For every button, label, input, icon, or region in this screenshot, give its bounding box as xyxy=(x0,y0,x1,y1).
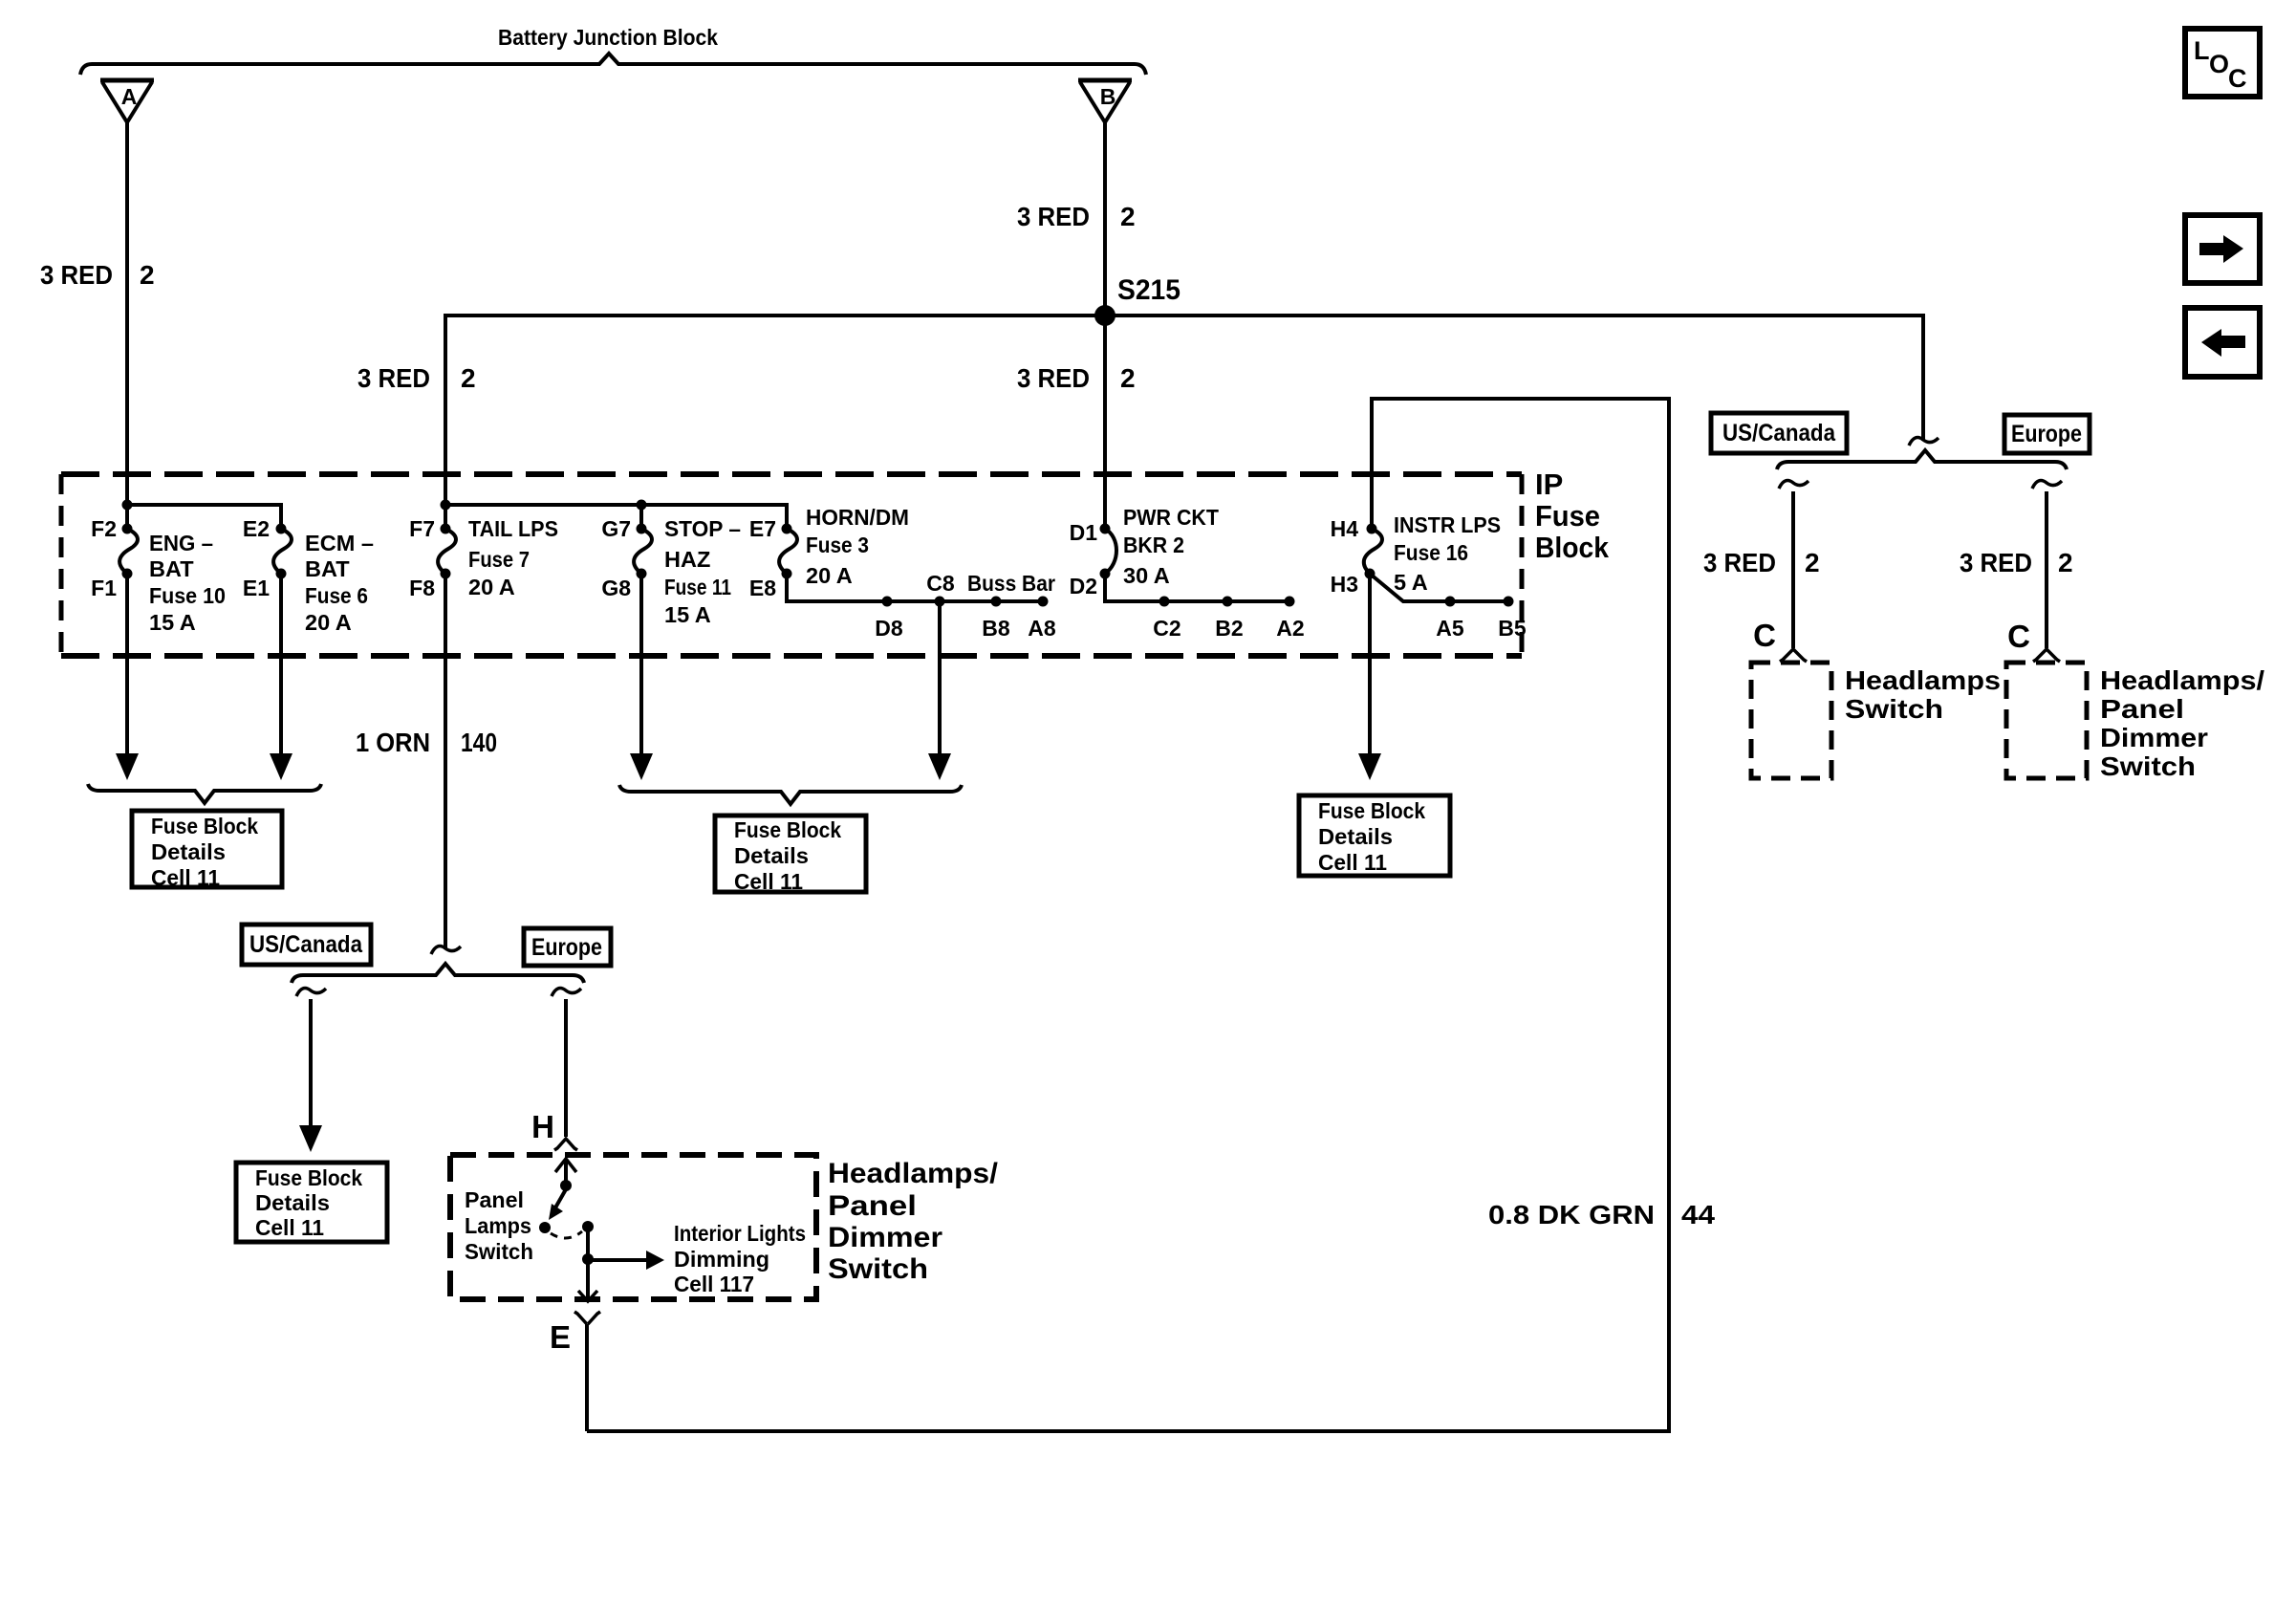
connector B (triangle) xyxy=(1078,80,1132,122)
svg-text:Cell 11: Cell 11 xyxy=(1318,850,1387,875)
svg-text:2: 2 xyxy=(461,363,476,393)
box Europe (upper) xyxy=(2004,415,2090,453)
connector break US/Canada headlamp branch xyxy=(1779,481,1809,489)
fuse ENG-BAT Fuse 10 (pins F2/F1) xyxy=(91,516,226,635)
svg-text:15 A: 15 A xyxy=(149,610,196,635)
circuit breaker PWR CKT BKR 2 (pins D1/D2) xyxy=(1070,505,1220,598)
connector break Europe headlamp branch xyxy=(2032,481,2062,489)
label Panel Lamps Switch xyxy=(465,1187,533,1264)
svg-text:3 RED: 3 RED xyxy=(1017,202,1090,231)
svg-text:Details: Details xyxy=(734,843,809,868)
fuse STOP-HAZ Fuse 11 (pins G7/G8) xyxy=(601,516,741,627)
box Fuse Block Details Cell 11 (left) xyxy=(132,811,282,890)
wire: S215 bus right to headlamp switches xyxy=(1105,315,1923,441)
brace US/Canada-Europe split (upper right) xyxy=(1777,450,2067,469)
svg-text:Dimming: Dimming xyxy=(674,1247,769,1272)
svg-text:Switch: Switch xyxy=(2100,751,2196,781)
page arrow left box xyxy=(2185,308,2260,377)
label Interior Lights Dimming Cell 117 xyxy=(674,1221,806,1296)
label Headlamps/Panel Dimmer Switch (inner) xyxy=(828,1158,999,1285)
svg-text:STOP –: STOP – xyxy=(664,516,741,541)
box US/Canada (lower) xyxy=(242,925,371,965)
svg-text:HORN/DM: HORN/DM xyxy=(806,505,909,530)
svg-text:140: 140 xyxy=(461,728,497,757)
switch up-arrow to H xyxy=(555,1159,576,1185)
wire right contact down to junction xyxy=(582,1227,594,1265)
svg-text:C: C xyxy=(2228,64,2247,93)
svg-text:5 A: 5 A xyxy=(1394,570,1428,595)
label IP Fuse Block xyxy=(1535,468,1610,564)
svg-text:C8: C8 xyxy=(926,571,955,596)
label 3 RED 2 on TAIL LPS feed xyxy=(357,363,476,393)
svg-text:3 RED: 3 RED xyxy=(1703,548,1776,577)
wire C8 output with arrow xyxy=(928,601,951,780)
wire US/Canada branch with arrow xyxy=(299,999,322,1152)
svg-text:HAZ: HAZ xyxy=(664,547,710,572)
svg-text:Block: Block xyxy=(1535,531,1610,564)
connector pin H xyxy=(531,1109,577,1150)
svg-text:D2: D2 xyxy=(1070,574,1097,598)
svg-text:F8: F8 xyxy=(409,576,435,600)
svg-text:Dimmer: Dimmer xyxy=(828,1222,942,1253)
svg-text:Fuse Block: Fuse Block xyxy=(1318,798,1426,823)
svg-text:3 RED: 3 RED xyxy=(1017,363,1090,393)
svg-text:F7: F7 xyxy=(409,516,435,541)
label 0.8 DK GRN 44 xyxy=(1488,1200,1715,1229)
wire: fuse-row bus from wire A to ECM fuse xyxy=(122,500,282,530)
wire E8 output to buss bar xyxy=(787,571,1056,641)
dashed box Headlamps Switch xyxy=(1751,663,1831,778)
node S215 xyxy=(1094,274,1180,326)
fuse INSTR LPS Fuse 16 (pins H4/H3) xyxy=(1331,512,1501,597)
svg-text:F2: F2 xyxy=(91,516,117,541)
svg-text:Cell 117: Cell 117 xyxy=(674,1272,754,1296)
wire to Headlamps Switch xyxy=(1791,491,1795,648)
svg-text:E8: E8 xyxy=(749,576,776,600)
svg-text:Cell 11: Cell 11 xyxy=(734,869,803,894)
svg-text:C: C xyxy=(2007,619,2030,654)
svg-text:44: 44 xyxy=(1681,1200,1715,1229)
wire INSTR LPS feed from top loop xyxy=(587,399,1669,1431)
svg-text:2: 2 xyxy=(1805,548,1820,577)
svg-text:Buss Bar: Buss Bar xyxy=(967,571,1055,596)
svg-text:H3: H3 xyxy=(1331,572,1358,597)
svg-text:Fuse: Fuse xyxy=(1535,499,1600,533)
svg-text:D8: D8 xyxy=(875,616,903,641)
svg-text:A8: A8 xyxy=(1028,616,1056,641)
svg-text:Cell 11: Cell 11 xyxy=(151,865,220,890)
svg-text:H: H xyxy=(531,1109,554,1144)
switch contact right dot xyxy=(582,1221,594,1232)
box Fuse Block Details Cell 11 (bottom-left) xyxy=(236,1163,387,1242)
svg-text:Fuse 16: Fuse 16 xyxy=(1394,540,1468,565)
svg-text:Switch: Switch xyxy=(1845,694,1943,724)
brace under F1/E1 arrows xyxy=(88,784,321,803)
svg-text:US/Canada: US/Canada xyxy=(249,931,363,958)
wire B: battery feed to S215 and D1 xyxy=(1103,122,1107,529)
svg-text:Cell 11: Cell 11 xyxy=(255,1215,324,1240)
svg-text:B8: B8 xyxy=(982,616,1010,641)
splice break on S215 right branch xyxy=(1909,438,1939,446)
page arrow right box xyxy=(2185,215,2260,283)
page locator LOC box xyxy=(2185,29,2260,97)
svg-text:3 RED: 3 RED xyxy=(357,363,430,393)
svg-text:Interior Lights: Interior Lights xyxy=(674,1221,806,1246)
svg-text:Fuse 7: Fuse 7 xyxy=(468,547,530,572)
wire E1 output with arrow xyxy=(270,574,292,780)
svg-text:Details: Details xyxy=(1318,824,1393,849)
wire D2 output bus xyxy=(1105,574,1305,641)
svg-text:Fuse 6: Fuse 6 xyxy=(305,583,368,608)
svg-text:3 RED: 3 RED xyxy=(40,260,113,290)
wire F8 output (1 ORN 140) xyxy=(444,574,447,949)
svg-text:20 A: 20 A xyxy=(468,575,515,599)
svg-text:2: 2 xyxy=(140,260,155,290)
svg-text:Lamps: Lamps xyxy=(465,1213,531,1238)
fuse TAIL LPS Fuse 7 (pins F7/F8) xyxy=(409,516,558,600)
svg-text:C2: C2 xyxy=(1153,616,1180,641)
svg-text:Panel: Panel xyxy=(828,1190,917,1222)
wire to Headlamps/Panel Dimmer Switch xyxy=(2045,491,2048,648)
switch contact left dot xyxy=(539,1222,551,1233)
svg-text:Switch: Switch xyxy=(465,1239,533,1264)
svg-text:E7: E7 xyxy=(749,516,776,541)
box US/Canada (upper) xyxy=(1711,413,1847,453)
svg-text:ECM –: ECM – xyxy=(305,531,374,555)
label 3 RED 2 on wire B upper xyxy=(1017,202,1136,231)
svg-text:Headlamps/: Headlamps/ xyxy=(2100,665,2264,695)
svg-text:BAT: BAT xyxy=(305,556,350,581)
wire H3 output to A5/B5 xyxy=(1370,574,1527,641)
wire A: battery feed to F2 xyxy=(125,122,129,529)
svg-text:Details: Details xyxy=(255,1190,330,1215)
label Headlamps/Panel Dimmer Switch (right) xyxy=(2100,665,2264,781)
svg-text:L: L xyxy=(2194,36,2210,65)
svg-text:US/Canada: US/Canada xyxy=(1722,420,1836,446)
wire Europe branch to H xyxy=(564,999,568,1137)
label 3 RED 2 on wire B lower xyxy=(1017,363,1136,393)
label 3 RED 2 (Europe headlamp) xyxy=(1960,548,2073,577)
fuse HORN/DM Fuse 3 (pins E7/E8) xyxy=(749,505,909,600)
svg-text:PWR CKT: PWR CKT xyxy=(1123,505,1220,530)
svg-text:2: 2 xyxy=(1120,202,1136,231)
svg-text:BKR 2: BKR 2 xyxy=(1123,533,1184,557)
box Europe (lower) xyxy=(524,928,611,966)
svg-text:ENG –: ENG – xyxy=(149,531,213,555)
svg-text:30 A: 30 A xyxy=(1123,563,1170,588)
svg-text:E: E xyxy=(550,1319,571,1355)
fuse ECM-BAT Fuse 6 (pins E2/E1) xyxy=(243,516,374,635)
brace under G8/C8 arrows xyxy=(619,785,962,804)
svg-text:20 A: 20 A xyxy=(305,610,352,635)
svg-text:Details: Details xyxy=(151,839,226,864)
switch blade with arrow xyxy=(549,1189,566,1220)
svg-text:INSTR LPS: INSTR LPS xyxy=(1394,512,1501,537)
svg-text:Fuse 10: Fuse 10 xyxy=(149,583,226,608)
svg-text:H4: H4 xyxy=(1331,516,1359,541)
svg-text:Fuse Block: Fuse Block xyxy=(255,1165,363,1190)
svg-text:Switch: Switch xyxy=(828,1253,928,1285)
connector pin E xyxy=(550,1312,600,1355)
wire junction down to E with arrow xyxy=(578,1260,597,1301)
svg-text:B5: B5 xyxy=(1498,616,1527,641)
svg-text:A5: A5 xyxy=(1436,616,1464,641)
label Headlamps Switch xyxy=(1845,665,2001,724)
connector A (triangle) xyxy=(100,80,154,122)
svg-text:0.8 DK GRN: 0.8 DK GRN xyxy=(1488,1200,1655,1229)
svg-text:E1: E1 xyxy=(243,576,270,600)
svg-text:Headlamps: Headlamps xyxy=(1845,665,2001,695)
svg-text:Headlamps/: Headlamps/ xyxy=(828,1158,999,1189)
svg-text:O: O xyxy=(2209,50,2229,78)
svg-text:B: B xyxy=(1100,84,1116,109)
switch pivot dot xyxy=(560,1180,572,1191)
svg-text:2: 2 xyxy=(2058,548,2073,577)
wire H3 down with arrow xyxy=(1358,574,1381,780)
arrow to Interior Lights Dimming xyxy=(588,1251,664,1270)
wire G8 output with arrow xyxy=(630,574,653,780)
svg-text:A: A xyxy=(121,84,138,109)
wire: S215 bus left to TAIL LPS column xyxy=(445,315,1105,529)
svg-text:15 A: 15 A xyxy=(664,602,711,627)
svg-text:Battery Junction Block: Battery Junction Block xyxy=(498,25,718,50)
svg-text:2: 2 xyxy=(1120,363,1136,393)
svg-text:20 A: 20 A xyxy=(806,563,853,588)
svg-text:BAT: BAT xyxy=(149,556,194,581)
svg-text:S215: S215 xyxy=(1117,274,1180,306)
svg-text:F1: F1 xyxy=(91,576,117,600)
svg-text:Europe: Europe xyxy=(2011,421,2082,447)
box Fuse Block Details Cell 11 (right) xyxy=(1299,795,1450,876)
connector break US/Canada lower branch xyxy=(296,989,326,996)
label 3 RED 2 on wire A xyxy=(40,260,155,290)
svg-text:Panel: Panel xyxy=(2100,694,2184,724)
svg-text:A2: A2 xyxy=(1276,616,1304,641)
svg-text:G7: G7 xyxy=(601,516,631,541)
svg-text:Fuse 3: Fuse 3 xyxy=(806,533,869,557)
svg-text:TAIL LPS: TAIL LPS xyxy=(468,516,558,541)
label 1 ORN 140 xyxy=(356,728,497,757)
connector pin C (US/Canada) xyxy=(1753,618,1807,662)
svg-text:Panel: Panel xyxy=(465,1187,524,1212)
connector break Europe lower branch xyxy=(552,989,581,996)
svg-text:G8: G8 xyxy=(601,576,631,600)
svg-text:1 ORN: 1 ORN xyxy=(356,728,430,757)
svg-text:Europe: Europe xyxy=(531,934,602,961)
svg-text:Fuse Block: Fuse Block xyxy=(734,817,842,842)
dashed linkage arc xyxy=(551,1231,582,1238)
brace US/Canada-Europe split (lower) xyxy=(292,964,584,983)
brace Battery Junction Block xyxy=(80,54,1146,75)
svg-text:D1: D1 xyxy=(1070,520,1098,545)
splice break on 1 ORN wire xyxy=(431,946,461,954)
svg-text:C: C xyxy=(1753,618,1776,653)
svg-text:Fuse 11: Fuse 11 xyxy=(664,575,731,599)
svg-text:E2: E2 xyxy=(243,516,270,541)
IP fuse block dashed outline xyxy=(61,474,1522,656)
svg-text:B2: B2 xyxy=(1215,616,1243,641)
wire F1 output with arrow xyxy=(116,574,139,780)
svg-text:Dimmer: Dimmer xyxy=(2100,723,2208,752)
svg-text:Fuse Block: Fuse Block xyxy=(151,814,259,838)
dashed box Headlamps/Panel Dimmer Switch (right) xyxy=(2006,663,2087,778)
dashed box Headlamps/Panel Dimmer Switch xyxy=(450,1155,816,1299)
svg-text:3 RED: 3 RED xyxy=(1960,548,2032,577)
wire E output to bottom loop xyxy=(585,1324,589,1431)
box Fuse Block Details Cell 11 (middle) xyxy=(715,816,866,894)
wire: fuse-row bus TAIL to HORN xyxy=(441,500,788,530)
label 3 RED 2 (US/Canada headlamp) xyxy=(1703,548,1820,577)
svg-text:IP: IP xyxy=(1535,468,1563,501)
connector pin C (Europe) xyxy=(2007,619,2060,662)
